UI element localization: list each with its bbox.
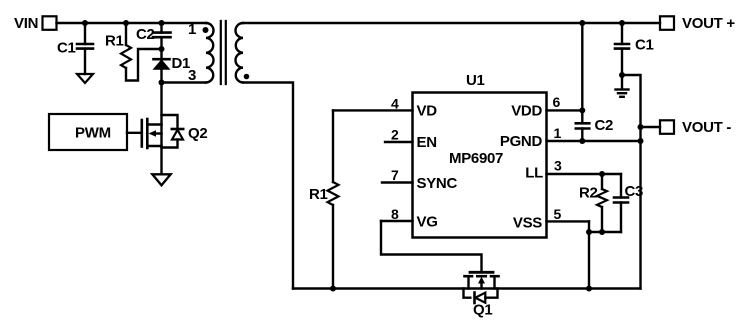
node C2-D1 [159, 46, 165, 52]
svg-text:VOUT +: VOUT + [682, 15, 735, 32]
svg-text:VD: VD [417, 103, 438, 120]
transformer core [221, 21, 226, 84]
svg-text:C1: C1 [635, 37, 654, 54]
svg-text:MP6907: MP6907 [449, 150, 503, 167]
wire C1 to VOUT- rail [622, 75, 641, 289]
svg-text:1: 1 [188, 21, 196, 38]
wire transformer pin 3 [162, 81, 207, 83]
op-amp U1 MP6907 body [413, 93, 547, 238]
wire secondary bottom to SW rail [243, 83, 293, 289]
resistor R1 (snubber) [121, 23, 162, 81]
pin name LL [525, 164, 543, 181]
node rail-VDD branch [579, 20, 585, 26]
capacitor C2 (snubber) [153, 23, 171, 49]
transformer T1 primary winding [206, 23, 214, 83]
label PWM [75, 125, 111, 142]
PWM block [49, 114, 127, 150]
svg-text:R1: R1 [105, 33, 124, 50]
wire VDD branch [581, 23, 583, 123]
svg-text:C2: C2 [595, 117, 614, 134]
pin number 1 [554, 125, 562, 141]
svg-text:C2: C2 [136, 26, 155, 43]
terminal VIN [43, 16, 57, 30]
wire VOUT- stub [641, 126, 661, 128]
label pin 1 [188, 21, 196, 38]
pin number 5 [554, 206, 562, 222]
svg-text:3: 3 [554, 158, 562, 174]
svg-text:3: 3 [188, 67, 196, 84]
wire PWM to Q2 gate [127, 132, 141, 134]
node R1-SW rail [330, 286, 336, 292]
label Q1 [473, 302, 492, 319]
node VSS-rail [586, 286, 592, 292]
pin name VG [417, 214, 438, 231]
label R1 (snubber) [105, 33, 124, 50]
node VIN-R1 [123, 20, 129, 26]
wire VG to Q1 gate [381, 221, 482, 271]
svg-text:C1: C1 [57, 40, 76, 57]
capacitor C1 (output) [615, 23, 629, 75]
label Q2 [188, 125, 207, 142]
label C1 (input) [57, 40, 76, 57]
earth ground (output) [616, 75, 629, 97]
svg-text:VIN: VIN [14, 15, 38, 32]
pin number 2 [391, 126, 399, 142]
wire pin 7 SYNC stub [382, 181, 413, 183]
pin number 3 [554, 158, 562, 174]
svg-text:U1: U1 [466, 72, 485, 89]
svg-text:5: 5 [554, 206, 562, 222]
node rail-C1 branch [619, 20, 625, 26]
wire R2/C3 bottom [589, 231, 621, 233]
label VOUT+ [682, 15, 735, 32]
svg-text:1: 1 [554, 125, 562, 141]
svg-text:Q1: Q1 [473, 302, 492, 319]
transformer secondary polarity dot [244, 74, 250, 80]
wire VIN rail [57, 22, 207, 24]
wire bottom rail [293, 287, 641, 289]
capacitor C1 (input) [77, 23, 93, 74]
node PGND-VOUT- rail [638, 138, 644, 144]
wire pin 8 VG [381, 220, 413, 222]
svg-text:7: 7 [391, 167, 399, 183]
svg-text:VG: VG [417, 214, 438, 231]
capacitor C3 [614, 174, 628, 232]
svg-text:6: 6 [553, 94, 561, 110]
pin name VDD [511, 103, 542, 120]
node C2-PGND [579, 138, 585, 144]
pin number 4 [391, 96, 399, 112]
transformer T1 secondary winding [236, 23, 244, 83]
svg-text:8: 8 [391, 206, 399, 222]
wire pin 1 PGND [547, 140, 641, 142]
wire pin 4 VD [333, 109, 413, 111]
wire secondary top rail to VOUT+ [243, 22, 660, 24]
ground (input C1) [77, 74, 93, 83]
label D1 [172, 55, 191, 72]
pin name VSS [513, 214, 542, 231]
label MP6907 [449, 150, 503, 167]
ground (Q2 source) [152, 174, 170, 185]
node VIN-C1 [82, 20, 88, 26]
wire pin 3 LL [547, 173, 622, 175]
terminal VOUT- [660, 120, 674, 134]
label U1 [466, 72, 485, 89]
wire pin 6 VDD [547, 109, 583, 111]
pin number 7 [391, 167, 399, 183]
svg-text:4: 4 [391, 96, 399, 112]
svg-text:PGND: PGND [500, 133, 543, 150]
node LL-R2 [599, 171, 605, 177]
svg-text:SYNC: SYNC [417, 175, 458, 192]
wire pin 5 VSS [547, 220, 590, 222]
label C1 (output) [635, 37, 654, 54]
resistor R2 [597, 174, 607, 232]
pin name EN [417, 134, 437, 151]
svg-text:VDD: VDD [511, 103, 542, 120]
pin number 6 [553, 94, 561, 110]
svg-text:PWM: PWM [75, 125, 111, 142]
pin name VD [417, 103, 438, 120]
transformer primary polarity dot [203, 27, 209, 33]
label C3 [625, 183, 644, 200]
svg-text:VSS: VSS [513, 214, 542, 231]
svg-text:2: 2 [391, 126, 399, 142]
node D1-pin3 [159, 80, 165, 86]
capacitor C2 (output) [576, 123, 590, 141]
node C1-ground [619, 72, 625, 78]
label pin 3 [188, 67, 196, 84]
pin name SYNC [417, 175, 458, 192]
svg-text:Q2: Q2 [188, 125, 207, 142]
svg-text:EN: EN [417, 134, 437, 151]
pin name PGND [500, 133, 543, 150]
diode D1 [154, 49, 170, 83]
wire pin 2 EN stub [385, 141, 413, 143]
transistor Q2 [142, 83, 183, 175]
label C2 (snubber) [136, 26, 155, 43]
terminal VOUT+ [660, 16, 674, 30]
resistor R1 (VD) [328, 110, 339, 288]
label VOUT- [682, 119, 731, 136]
node VIN-C2 [159, 20, 165, 26]
pin number 8 [391, 206, 399, 222]
wire VSS down [588, 221, 590, 288]
label R2 [579, 184, 598, 201]
svg-text:LL: LL [525, 164, 543, 181]
label C2 (output) [595, 117, 614, 134]
transistor Q1 [464, 272, 499, 303]
label VIN [14, 15, 38, 32]
node VOUT- tee [638, 124, 644, 130]
node VSS-R2C3 bottom [586, 229, 605, 235]
label R1 (VD) [309, 186, 328, 203]
svg-text:VOUT -: VOUT - [682, 119, 731, 136]
node VDD-C2 [579, 107, 585, 113]
svg-text:R2: R2 [579, 184, 598, 201]
svg-text:R1: R1 [309, 186, 328, 203]
